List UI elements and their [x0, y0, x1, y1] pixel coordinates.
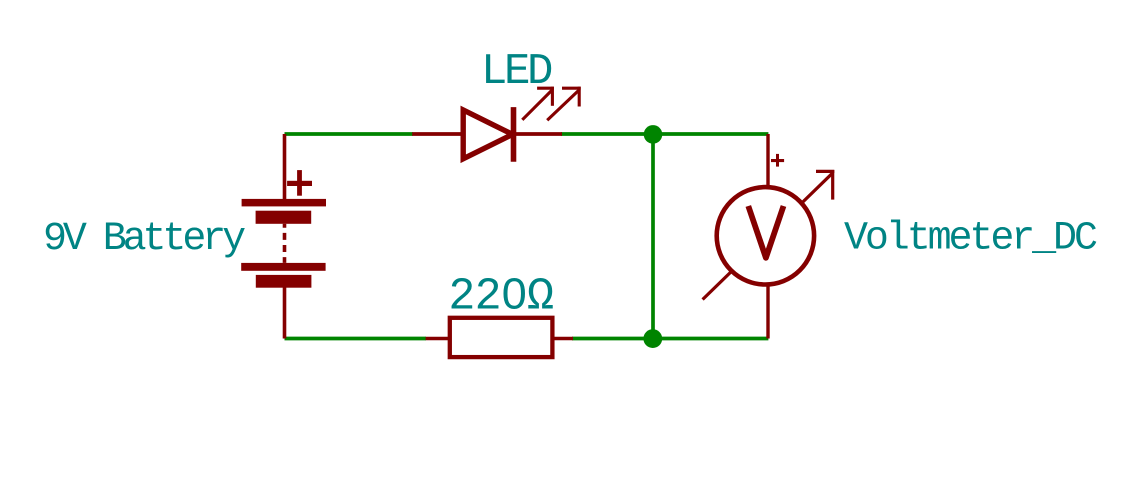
battery BT1 plus mark	[287, 170, 312, 196]
voltmeter U1 letter V	[748, 206, 783, 258]
battery BT1 body	[241, 199, 326, 288]
wire: LED cathode to voltmeter + (top right horizontal)	[561, 132, 768, 136]
LED D1 arrow 1	[522, 87, 554, 120]
resistor R1 body	[450, 318, 553, 357]
wire: resistor to voltmeter - (bottom right horizontal)	[572, 337, 768, 341]
resistor R1 pin right	[553, 337, 573, 341]
svg-text:9V Battery: 9V Battery	[43, 217, 245, 262]
svg-text:LED: LED	[481, 47, 552, 97]
battery BT1 pin - (bottom)	[283, 287, 287, 339]
svg-text:220Ω: 220Ω	[448, 272, 553, 323]
node: junction top	[644, 125, 663, 144]
LED D1 pin anode	[412, 132, 461, 136]
wire: vertical between junctions	[651, 134, 655, 339]
resistor R1 pin left	[426, 337, 449, 341]
LED D1 pin cathode	[515, 132, 562, 136]
battery BT1 pin + (top)	[283, 134, 287, 200]
voltmeter U1 pin - (bottom)	[766, 286, 769, 339]
svg-text:Voltmeter_DC: Voltmeter_DC	[844, 217, 1097, 262]
voltmeter U1 body circle	[717, 187, 814, 284]
LED D1 triangle	[463, 110, 512, 159]
node: junction bottom	[643, 329, 662, 348]
wire: battery + to LED anode (top left horizontal)	[285, 132, 414, 136]
wire: battery - to resistor (bottom left horizontal)	[285, 337, 427, 341]
voltmeter U1 plus mark	[771, 154, 784, 167]
voltmeter U1 pin + (top)	[766, 134, 769, 186]
LED D1 cathode bar	[511, 107, 517, 162]
voltmeter U1 arrow	[703, 170, 835, 300]
LED D1 arrow 2	[547, 87, 581, 121]
